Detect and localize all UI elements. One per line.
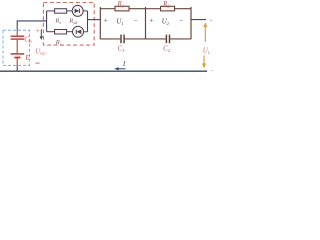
svg-text:+: + xyxy=(103,16,108,24)
svg-text:UL: UL xyxy=(203,46,211,55)
svg-text:UOC: UOC xyxy=(35,48,46,56)
top branch wires around R1 xyxy=(100,8,115,10)
resistor R1 xyxy=(115,6,129,11)
svg-text:−: − xyxy=(179,17,184,25)
svg-text:R1: R1 xyxy=(117,1,124,9)
bottom rail xyxy=(0,70,207,72)
svg-text:R2: R2 xyxy=(162,1,170,9)
resistor Rc (bottom) xyxy=(55,30,67,35)
svg-text:Rc: Rc xyxy=(55,39,62,46)
Uoc voltage arrow (down) xyxy=(40,29,42,36)
right node vertical (inside red box) xyxy=(87,11,89,32)
svg-text:+: + xyxy=(149,16,154,24)
svg-text:Rsd: Rsd xyxy=(68,18,78,25)
svg-text:+: + xyxy=(209,18,213,25)
svg-text:U2: U2 xyxy=(162,19,170,26)
wire lead below E xyxy=(16,58,18,65)
wire to + terminal xyxy=(191,19,206,21)
wire between Cb and E xyxy=(16,40,18,53)
left node vertical (inside red box) xyxy=(46,11,48,32)
UL arrow down xyxy=(203,56,205,65)
svg-text:+: + xyxy=(35,27,40,35)
battery cell E xyxy=(11,54,25,58)
svg-text:U1: U1 xyxy=(116,19,123,26)
bottom branch wires around C1 xyxy=(100,38,120,40)
bottom branch wires around C2 xyxy=(146,38,166,40)
capacitor C2 xyxy=(166,35,169,44)
wire xyxy=(83,10,87,12)
wire top-left horizontal xyxy=(17,20,46,22)
middle shared vertical xyxy=(145,7,147,39)
bottom branch wire xyxy=(47,31,55,33)
svg-text:−: − xyxy=(210,67,214,74)
wire xyxy=(67,10,73,12)
UL arrow up xyxy=(204,26,206,42)
capacitor Cb xyxy=(11,36,25,39)
current arrow I (pointing left) xyxy=(117,68,126,70)
wire exit red box xyxy=(88,19,101,21)
red dashed box (series resistance network) xyxy=(43,3,94,46)
svg-text:C1: C1 xyxy=(118,46,125,54)
svg-text:E: E xyxy=(24,54,30,62)
resistor Rs (top) xyxy=(55,9,67,14)
wire xyxy=(84,31,88,33)
RC block 1 left vertical xyxy=(99,7,101,39)
svg-text:Rs: Rs xyxy=(54,18,61,25)
svg-text:Cb: Cb xyxy=(24,36,32,46)
diode circle top (conducts right) xyxy=(72,5,83,16)
svg-text:−: − xyxy=(133,17,138,25)
resistor R2 xyxy=(161,6,175,11)
blue dashed box (OCV source) xyxy=(3,30,30,65)
svg-text:C2: C2 xyxy=(163,46,171,54)
svg-text:I: I xyxy=(122,61,126,68)
wire lead into Cb xyxy=(16,20,18,30)
diode circle bottom (conducts left) xyxy=(73,26,84,37)
top branch wire xyxy=(47,10,55,12)
wire xyxy=(67,31,73,33)
top branch wires around R2 xyxy=(146,8,161,10)
minus sign for Uoc xyxy=(35,62,39,64)
RC block 2 right vertical xyxy=(190,7,192,39)
capacitor C1 xyxy=(121,35,124,44)
